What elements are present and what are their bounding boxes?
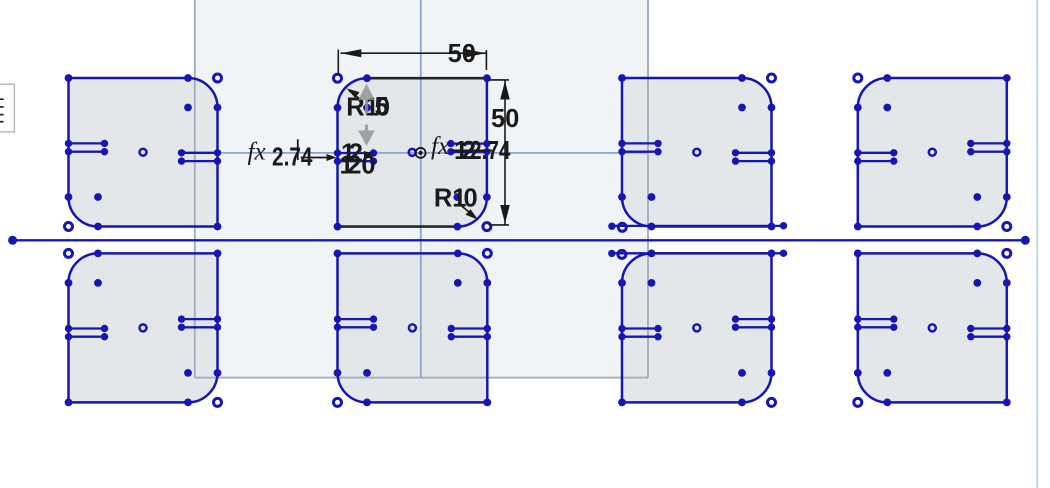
dimension R10 top-left: [346, 88, 390, 121]
seed edge extension at S3 bottom: [608, 222, 787, 230]
face boundary lines: [195, 0, 648, 378]
square S3 outline: [622, 78, 772, 227]
square S4 outline: [858, 78, 1007, 227]
slot S7-R: [732, 315, 775, 331]
slot S2-L: [334, 149, 377, 165]
dimension 2.74 (fx): [248, 139, 337, 172]
slot S4-L: [854, 149, 897, 165]
slot S8-R: [967, 325, 1010, 341]
points of S4: [854, 74, 1011, 231]
square S5 outline: [69, 253, 218, 402]
slot S1-R: [178, 149, 221, 165]
svg-text:fx: fx: [431, 133, 449, 160]
square S8 outline: [858, 253, 1007, 402]
slot S3-L: [618, 140, 661, 156]
svg-text:50: 50: [491, 105, 519, 133]
svg-text:R10: R10: [434, 185, 478, 213]
dimension 12: [341, 139, 374, 167]
slot S6-L: [334, 315, 377, 331]
svg-text:120: 120: [340, 152, 376, 180]
selected face highlight rectangle: [195, 0, 648, 378]
points of S7: [618, 250, 776, 407]
svg-text:fx: fx: [248, 139, 266, 166]
svg-text:50: 50: [448, 40, 476, 68]
points of S6: [334, 249, 492, 406]
points of S8: [854, 249, 1011, 406]
dimension 50 top: [338, 40, 486, 75]
dimension R10 bottom-right: [434, 185, 478, 220]
points of S5: [65, 249, 222, 406]
slot S1-L: [65, 140, 108, 156]
slot S6-R: [448, 325, 491, 341]
slot S8-L: [854, 315, 897, 331]
seed edge extension at S7 top: [608, 250, 787, 258]
partial dialog box at left edge: [0, 84, 14, 132]
slot S4-R: [967, 140, 1010, 156]
slot S5-L: [65, 325, 108, 341]
slot S3-R: [732, 149, 775, 165]
slot S2-R: [447, 140, 490, 156]
slot S7-L: [618, 325, 661, 341]
dimension 50 right: [489, 80, 520, 225]
gray drag arrows: [358, 84, 375, 147]
square S7 outline: [622, 253, 772, 402]
horizontal construction line: [8, 236, 1030, 245]
slot S5-R: [178, 315, 221, 331]
sketch origin marker: [416, 148, 426, 158]
square S1 outline: [69, 78, 218, 227]
square S6 outline: [338, 253, 488, 402]
right cyan edge line: [1036, 0, 1038, 488]
square S2 outline: [338, 78, 487, 226]
points of S1: [65, 74, 222, 231]
points of S3: [618, 74, 775, 231]
svg-text:2.74: 2.74: [470, 137, 511, 165]
points of S2: [334, 74, 491, 230]
dimension 12.74 (fx): [431, 133, 511, 165]
square fills: [69, 78, 1007, 402]
